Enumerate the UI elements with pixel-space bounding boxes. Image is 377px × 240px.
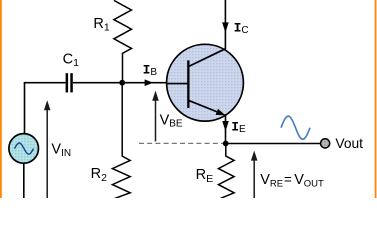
svg-text:R1: R1 <box>93 16 109 34</box>
output wire to Vout terminal <box>226 143 321 145</box>
resistor R1 <box>114 0 132 82</box>
base lead inside transistor <box>166 83 188 85</box>
transistor Q1 body <box>167 44 244 121</box>
capacitor C1 plates <box>66 73 69 92</box>
svg-text:VIN: VIN <box>51 142 71 159</box>
emitter wire down to output node <box>225 114 227 144</box>
node A: base junction dot <box>119 80 125 86</box>
resistor RE <box>218 144 234 199</box>
svg-text:RE: RE <box>270 179 283 190</box>
svg-text:IE: IE <box>231 120 246 136</box>
transistor base bar <box>187 60 189 108</box>
svg-text:V: V <box>294 172 304 188</box>
svg-text:RE: RE <box>196 167 214 185</box>
AC source VIN symbol <box>9 134 39 164</box>
IC current arrowhead <box>222 22 229 32</box>
IB current arrowhead <box>145 79 154 86</box>
VBE measurement arrow <box>155 99 157 141</box>
svg-text:C1: C1 <box>63 51 79 69</box>
resistor R2 <box>112 83 130 199</box>
wire: left vertical from input corner down to source <box>24 83 26 134</box>
sine inside source <box>15 143 34 154</box>
right orange page border <box>375 0 377 198</box>
VRE measurement arrow <box>253 160 255 198</box>
collector diagonal <box>188 49 225 67</box>
emitter diagonal with arrow <box>188 100 220 113</box>
left orange page border <box>0 0 2 198</box>
svg-text:V: V <box>260 172 270 188</box>
Vout terminal <box>321 139 330 148</box>
wire: below source to bottom edge <box>23 163 25 198</box>
wire: capacitor to transistor base <box>73 82 188 84</box>
collector wire from top <box>224 0 226 50</box>
svg-text:R2: R2 <box>91 166 107 184</box>
wire: input horizontal to capacitor <box>24 82 66 84</box>
node: emitter output junction dot <box>223 141 229 147</box>
svg-text:Vout: Vout <box>335 136 363 151</box>
svg-text:=: = <box>284 172 292 187</box>
svg-text:OUT: OUT <box>304 179 324 190</box>
dashed reference line <box>139 142 224 144</box>
IE current arrowhead <box>222 121 229 131</box>
svg-text:IC: IC <box>234 21 249 37</box>
VIN measurement arrow <box>46 110 48 198</box>
svg-text:IB: IB <box>143 63 158 79</box>
output sine wave <box>281 116 310 139</box>
svg-text:VBE: VBE <box>160 112 183 129</box>
